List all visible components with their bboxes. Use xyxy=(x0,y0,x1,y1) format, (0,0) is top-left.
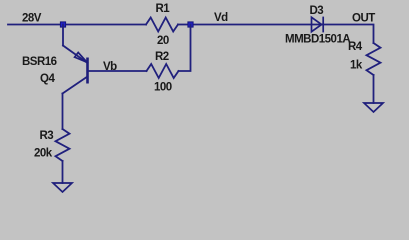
svg-text:28V: 28V xyxy=(22,13,42,25)
svg-text:R3: R3 xyxy=(40,130,54,142)
junction 28V rail / Q4 emitter xyxy=(60,22,65,27)
D3 cathode bar xyxy=(322,17,324,33)
transistor Q4 xyxy=(22,46,88,94)
wire node Vd to D3 anode xyxy=(191,24,323,26)
junction node Vd xyxy=(188,22,193,27)
Q4 base bar xyxy=(86,58,89,84)
svg-text:1k: 1k xyxy=(350,60,363,72)
svg-text:100: 100 xyxy=(154,82,172,94)
R4 zigzag body xyxy=(367,43,381,75)
wire D3 cathode to OUT corner xyxy=(323,25,373,44)
svg-text:Q4: Q4 xyxy=(40,73,55,85)
svg-text:R1: R1 xyxy=(156,3,171,15)
wire 28V rail left stub xyxy=(8,24,63,26)
svg-text:D3: D3 xyxy=(310,5,324,17)
svg-text:MMBD1501A: MMBD1501A xyxy=(285,34,350,46)
Q4 emitter lead xyxy=(63,46,88,64)
svg-text:20: 20 xyxy=(157,35,169,47)
wire Q4 emitter drop from junction xyxy=(62,25,64,46)
resistor R3 xyxy=(34,129,70,161)
wire R1 to node Vd xyxy=(178,24,191,26)
wire R3 to ground xyxy=(62,161,64,183)
R1 zigzag body xyxy=(146,18,178,32)
resistor R4 xyxy=(348,41,381,75)
wire R2 up to node Vd xyxy=(179,25,191,72)
ground right xyxy=(364,103,383,112)
D3 anode triangle xyxy=(312,17,322,31)
Q4 collector lead xyxy=(63,77,88,94)
R3 zigzag body xyxy=(56,129,70,161)
resistor R2 xyxy=(147,51,179,94)
resistor R1 xyxy=(146,3,178,47)
wire R4 to ground xyxy=(373,75,375,103)
wire 28V rail to R1 xyxy=(63,24,146,26)
diode D3 xyxy=(285,5,350,46)
R2 zigzag body xyxy=(147,64,179,78)
svg-text:BSR16: BSR16 xyxy=(22,56,57,68)
wire Q4 collector to R3 xyxy=(62,94,64,130)
svg-text:OUT: OUT xyxy=(352,13,375,25)
svg-text:Vd: Vd xyxy=(214,12,228,24)
wire Q4 base to R2 xyxy=(89,70,147,72)
ground left xyxy=(53,183,72,192)
svg-text:R4: R4 xyxy=(348,41,363,53)
svg-text:20k: 20k xyxy=(34,148,53,160)
svg-text:R2: R2 xyxy=(155,51,169,63)
Q4 emitter arrow (PNP) xyxy=(75,53,88,63)
